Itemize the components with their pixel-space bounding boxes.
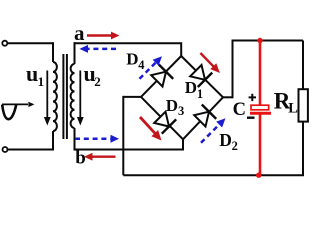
svg-text:4: 4 bbox=[138, 58, 145, 72]
red current arrow at D3 bbox=[140, 117, 162, 141]
input terminal top-left bbox=[2, 41, 7, 46]
svg-text:1: 1 bbox=[38, 74, 45, 89]
capacitor C negative plate bbox=[250, 112, 271, 115]
blue dashed current arrow above node b bbox=[75, 135, 119, 143]
svg-text:b: b bbox=[75, 147, 86, 168]
diode D3 edge wire bbox=[141, 97, 183, 139]
wire node b to bridge bottom bbox=[74, 140, 184, 150]
label plus bbox=[249, 94, 256, 101]
wire plus rail vertical bbox=[232, 41, 234, 99]
diode D3 symbol bbox=[154, 112, 176, 134]
input terminal bottom-left bbox=[3, 147, 8, 152]
u2 voltage arrow bbox=[77, 71, 84, 126]
transformer core bbox=[63, 54, 67, 139]
svg-text:C: C bbox=[233, 100, 246, 120]
svg-text:a: a bbox=[74, 21, 85, 45]
input waveform symbol axis bbox=[2, 104, 28, 119]
svg-text:2: 2 bbox=[232, 139, 238, 153]
transformer secondary winding bbox=[71, 64, 75, 128]
diode D1 symbol bbox=[190, 65, 212, 87]
label minus bbox=[247, 116, 255, 118]
capacitor C red lead upper bbox=[259, 41, 262, 176]
svg-text:2: 2 bbox=[94, 74, 101, 89]
wire bottom rail bbox=[123, 174, 304, 176]
input waveform axis arrowhead bbox=[28, 102, 34, 107]
red current arrow at node a bbox=[87, 32, 120, 40]
wire right rail lower bbox=[302, 122, 304, 175]
blue dashed current arrow below node a bbox=[80, 45, 117, 53]
diode D2 symbol bbox=[194, 105, 216, 127]
wire bridge right stub bbox=[223, 96, 233, 98]
junction dot top bbox=[257, 38, 262, 43]
wire secondary bottom lead bbox=[74, 128, 76, 150]
diode D4 symbol bbox=[151, 65, 173, 87]
blue dashed current arrow at D4 bbox=[140, 56, 163, 79]
diode D1 edge wire bbox=[181, 56, 223, 97]
svg-text:3: 3 bbox=[178, 104, 184, 118]
svg-text:D: D bbox=[126, 49, 138, 68]
wire node a to bridge top bbox=[74, 43, 182, 56]
red current arrow at node b bbox=[84, 153, 116, 161]
u1 voltage arrow bbox=[44, 71, 51, 126]
capacitor C positive plate bbox=[251, 105, 269, 110]
svg-text:u: u bbox=[26, 61, 38, 86]
red current arrow at D1 bbox=[200, 53, 220, 73]
transformer primary winding bbox=[53, 62, 57, 131]
svg-text:D: D bbox=[166, 96, 178, 115]
wire top-left horizontal bbox=[7, 42, 53, 44]
wire primary bottom lead bbox=[52, 131, 54, 150]
load resistor RL body bbox=[299, 89, 308, 121]
wire bridge left stub bbox=[123, 96, 141, 98]
svg-text:1: 1 bbox=[197, 87, 203, 101]
wire bottom-left horizontal bbox=[8, 149, 54, 151]
wire secondary top lead bbox=[74, 42, 76, 64]
svg-text:L: L bbox=[288, 100, 298, 116]
svg-text:D: D bbox=[185, 78, 197, 97]
capacitor C lead lower bbox=[259, 115, 262, 176]
diode D2 edge wire bbox=[183, 97, 223, 139]
diode D4 edge wire bbox=[141, 56, 181, 97]
blue dashed current arrow at D2 bbox=[201, 118, 226, 143]
junction dot bottom bbox=[256, 173, 261, 178]
wire right rail upper bbox=[302, 41, 304, 90]
svg-text:D: D bbox=[219, 130, 232, 150]
wire top rail bbox=[232, 40, 304, 42]
wire minus rail vertical bbox=[122, 96, 124, 175]
wire primary top lead bbox=[52, 42, 54, 62]
